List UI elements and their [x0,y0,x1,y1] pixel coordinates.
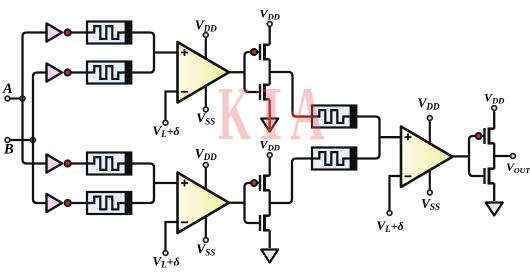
cmos inverter 2 (Q3 PMOS / Q4 NMOS) [245,153,273,232]
power VSS opamp2 [196,217,215,258]
wire opamp2 to cmos2 [229,202,245,204]
wire A bus (to inverter rows 1 and 3) [23,33,47,164]
cmos inverter 1 (Q1 PMOS / Q2 NMOS) [245,22,273,101]
op-amp U3 [401,127,453,188]
output VOUT [494,154,530,175]
wire M3/M4 outputs join [131,164,154,204]
svg-text:VL+δ: VL+δ [377,218,404,234]
wire cmos2 output to M6 [270,159,312,204]
power VDD opamp3 [417,96,440,145]
op-amp U2 [178,173,230,234]
wire opamp1 to cmos1 [229,71,245,73]
junction A [20,96,25,101]
svg-text:A: A [2,81,13,97]
power VDD opamp1 [195,18,218,59]
power VSS opamp1 [196,86,215,127]
power VSS opamp3 [421,170,440,213]
wire B bus (to inverter rows 2 and 4) [33,73,47,204]
memristor M4 [87,192,131,214]
svg-text:A: A [290,71,325,156]
watermark KIA [218,71,325,156]
wire inv3 to M3 [71,162,87,164]
op-amp U1 [178,42,230,103]
memristor M5 [312,106,356,128]
wire node to opamp2 + [154,182,178,184]
wire M5/M6 outputs join [356,117,379,159]
wire inv1 to M1 [71,31,87,33]
inverter row1 [47,23,71,41]
wire node to opamp3 + [380,136,402,138]
wire cmos3 source [493,183,495,201]
bias VL+d opamp3 [377,176,404,234]
ground 1 [261,119,278,132]
wire cmos1 output to M5 [270,72,293,112]
power VDD opamp2 [195,146,218,189]
wire M1/M2 outputs join [131,33,154,73]
wire node to opamp1 + [154,51,178,53]
wire cmos1 source red [269,100,271,132]
wire opamp3 to cmos3 [450,155,469,157]
wire cmos2 source [269,230,271,248]
bias VL+d opamp2 [153,222,180,270]
wire red into M5 [293,110,320,117]
inverter row2 [47,63,71,81]
svg-text:K: K [218,72,251,156]
wire inv2 to M2 [71,71,87,73]
memristor M6 [312,148,356,170]
memristor M3 [87,153,131,175]
inverter row3 [47,154,71,172]
bias VL+d opamp1 [153,92,180,140]
memristor M2 [87,62,131,84]
wire inv4 to M4 [71,202,87,204]
svg-text:B: B [3,142,14,158]
svg-text:I: I [259,72,283,156]
ground 3 [486,203,503,216]
junction B [31,138,36,143]
ground 2 [261,250,278,263]
input terminal B [3,138,31,158]
input terminal A [2,81,21,101]
memristor M1 [87,22,131,44]
inverter row4 [47,194,71,212]
cmos inverter 3 (Q5 PMOS / Q6 NMOS) [469,106,497,185]
